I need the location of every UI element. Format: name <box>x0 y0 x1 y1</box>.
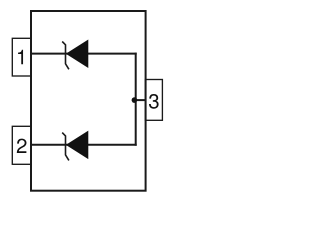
pin 1 number label "1" <box>18 50 23 64</box>
pin 2 box <box>12 126 31 164</box>
diode D1 (zener) anode triangle <box>66 40 88 67</box>
wire node to pin 3 <box>135 99 146 101</box>
diode D2 (zener) anode triangle <box>66 131 88 158</box>
wire pin 2 to diode D2 <box>31 144 137 146</box>
pin 3 box <box>145 80 162 121</box>
package body outline <box>31 11 146 191</box>
pin 2 number label "2" <box>17 139 27 153</box>
junction node dot <box>132 97 138 103</box>
diode D2 zener cathode bar <box>62 133 69 161</box>
pin 3 number label "3" <box>149 94 159 109</box>
diode D1 zener cathode bar <box>62 42 69 70</box>
wire common cathode vertical (net of pin 3) <box>135 53 137 146</box>
pin 1 box <box>12 38 31 76</box>
wire pin 1 to diode D1 <box>31 53 137 55</box>
